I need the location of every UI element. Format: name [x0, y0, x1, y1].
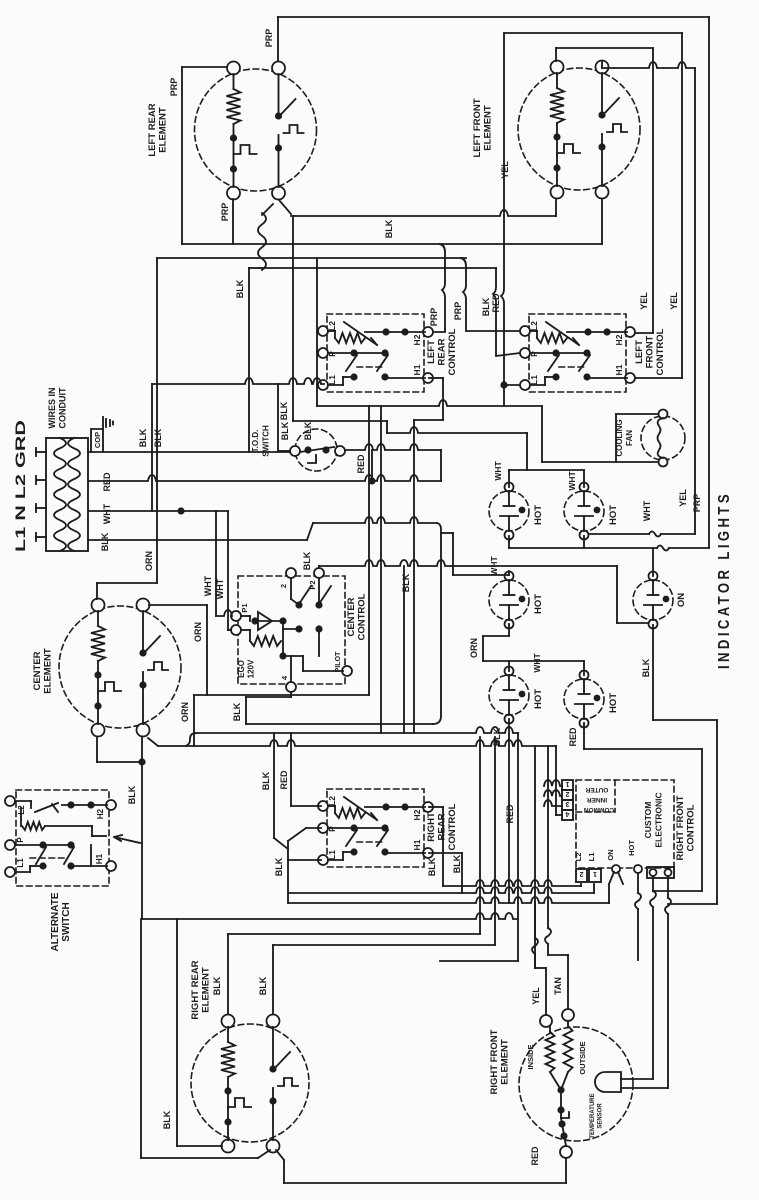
wire BLK y=433 to lamp feed x=527	[387, 427, 527, 433]
svg-text:BLK: BLK	[127, 785, 137, 804]
bus y=566 from P2 to ON lamp feed	[319, 560, 617, 566]
svg-text:L1: L1	[587, 853, 596, 862]
bus y=903 to RFC ON	[288, 897, 609, 903]
center control box	[231, 568, 352, 692]
wire YEL x=535 from bus746 down to RFE	[534, 746, 536, 968]
svg-text:WHT: WHT	[489, 556, 499, 576]
wire PRP: LRE T3 down to bus y=244	[232, 199, 234, 244]
left rear element body	[195, 62, 317, 200]
svg-text:2: 2	[565, 790, 569, 797]
svg-text:HOT: HOT	[533, 505, 544, 525]
svg-text:ELEMENT: ELEMENT	[43, 648, 54, 694]
right vertical x=695 down to lamp row feed y=533	[694, 68, 696, 534]
wire PRP bus y=244 to LFE T4 with taps	[182, 243, 602, 245]
flexible wire squiggle x=262	[258, 213, 266, 270]
svg-text:HOT: HOT	[608, 505, 619, 525]
wire BLK jog left to x=249	[249, 267, 262, 269]
lamp3 bottom to ORN jog	[508, 624, 510, 636]
wires in conduit box	[46, 438, 88, 551]
svg-text:WHT: WHT	[532, 653, 542, 673]
supply stub L1	[36, 536, 46, 538]
RFC sensor connector	[647, 867, 674, 878]
svg-text:OUTSIDE: OUTSIDE	[578, 1041, 587, 1074]
wire RRC H1 right down x=462	[429, 852, 462, 854]
svg-text:120V: 120V	[247, 659, 256, 678]
svg-text:L2: L2	[574, 853, 583, 862]
center control internals EGO igniter	[241, 612, 287, 660]
svg-text:3: 3	[565, 800, 569, 807]
svg-text:YEL: YEL	[531, 987, 541, 1005]
RFC pin stub wires	[544, 780, 562, 786]
svg-text:BLK: BLK	[261, 771, 271, 790]
bus y=68 with hops to x=695	[602, 62, 695, 68]
svg-text:YEL: YEL	[639, 292, 649, 310]
wire WHT bus y=511 from conduit	[88, 510, 228, 512]
bus y=406 from x=317 to fan feed	[317, 400, 542, 406]
wire ORN x=207 down to bus y=695	[206, 605, 208, 695]
wire from x=717 to sensor wire	[668, 903, 717, 905]
supply stub GRD	[36, 451, 46, 453]
wire x=495 from bus733 to bus945	[494, 737, 496, 945]
svg-text:BLK: BLK	[258, 976, 268, 995]
row3 tops bus y=661	[483, 660, 584, 662]
svg-text:L2: L2	[327, 796, 337, 806]
RFC HOT terminal	[634, 865, 642, 873]
wire: LFE T4 vertical from bus 244	[601, 197, 603, 244]
svg-text:RIGHT REAR: RIGHT REAR	[190, 960, 201, 1019]
ON lamp bottom BLK down	[652, 625, 654, 720]
svg-text:LEFT FRONT: LEFT FRONT	[472, 98, 483, 157]
wire BLK x=414 down to bus y=733	[413, 420, 415, 733]
alternate switch box	[5, 790, 116, 886]
svg-text:YEL: YEL	[500, 161, 510, 179]
svg-text:BLK: BLK	[384, 219, 394, 238]
svg-text:YEL: YEL	[669, 292, 679, 310]
wire BLK vertical x=249 down to TOD ground line	[248, 268, 250, 452]
curve join y=746 to y=733	[186, 733, 196, 746]
svg-text:H2: H2	[412, 334, 422, 345]
center element body	[59, 599, 181, 737]
wire COP ground: conduit to COP box and TOD switch	[88, 451, 294, 453]
svg-text:L2: L2	[327, 321, 337, 331]
right rear control box	[318, 789, 433, 867]
wire: CE T1 up then right to x=157	[96, 583, 98, 599]
fan feed from x=504	[541, 406, 543, 462]
branch at 533 to lamp3 feed	[441, 532, 453, 534]
bus y=724 to x=480	[246, 723, 433, 725]
junction at CE T4 line	[138, 758, 145, 765]
svg-text:CONTROL: CONTROL	[447, 328, 458, 375]
svg-text:BLK: BLK	[302, 551, 312, 570]
svg-text:HOT: HOT	[627, 840, 636, 856]
svg-text:RED: RED	[491, 293, 501, 313]
svg-text:H1: H1	[95, 853, 104, 864]
svg-text:RIGHT: RIGHT	[426, 812, 437, 842]
svg-text:BLK: BLK	[427, 857, 437, 876]
wire BLK y=268 right to x=496	[262, 267, 496, 269]
bus y=945 from RRE T2 to x=495	[273, 944, 495, 946]
svg-text:EGO: EGO	[237, 660, 246, 678]
bus y=919 from x=142	[142, 913, 518, 919]
ON lamp top feed from y=548	[652, 548, 654, 576]
wire BLK x=152 from bus y=384 down to WHT bus	[151, 384, 153, 511]
indicator lamp HOT row3 left	[489, 667, 529, 724]
svg-text:ELEMENT: ELEMENT	[483, 105, 494, 151]
indicator lamp HOT row1 left	[489, 483, 529, 540]
wire BLK vertical x=317 from ORN bus to y=433	[316, 258, 318, 406]
svg-text:PRP: PRP	[169, 78, 179, 97]
svg-text:L2: L2	[529, 321, 539, 331]
svg-text:L1: L1	[529, 375, 539, 385]
wire RRC L1 to x=288	[288, 859, 321, 861]
svg-text:FAN: FAN	[625, 430, 634, 446]
svg-text:BLK: BLK	[232, 702, 242, 721]
svg-text:WHT: WHT	[493, 461, 503, 481]
wire: LRC H1 right to x=443	[429, 377, 443, 379]
svg-text:ELECTRONIC: ELECTRONIC	[654, 792, 664, 847]
svg-text:RIGHT FRONT: RIGHT FRONT	[675, 795, 686, 860]
svg-text:BLK: BLK	[235, 279, 245, 298]
left front element body	[518, 61, 640, 199]
svg-text:H2: H2	[412, 809, 422, 820]
diagonal to RRE T4	[258, 1150, 270, 1158]
bus y=33 corner at x=504	[504, 32, 682, 34]
lamp6 bottom RED to right	[583, 723, 585, 749]
svg-text:H1: H1	[614, 364, 624, 375]
wire: CE T3 down and right to x=142	[96, 738, 98, 762]
svg-text:RED: RED	[568, 727, 578, 747]
wire RED bus y=481 from conduit	[88, 475, 441, 481]
wire RED vertical x=504 from bus y=33 down to fan feed	[501, 33, 504, 406]
wire BLK x=228 from bus934 to RRE T1	[227, 934, 229, 1014]
row1 lamp bottom stubs to y=548	[508, 536, 510, 548]
right vertical x=682 down to LFC H1	[681, 33, 683, 378]
svg-text:BLK: BLK	[274, 857, 284, 876]
wire ORN x=194 from bus 695 down to y=746	[193, 695, 195, 746]
wire: LFC L1 to x=504	[504, 384, 520, 386]
wire TAN x=548 from bus746 down	[547, 746, 549, 928]
svg-text:RED: RED	[279, 770, 289, 790]
svg-text:L1: L1	[327, 375, 337, 385]
wire: terminal 4 down-left jog	[290, 692, 292, 697]
bus y=886 to RFC L2	[443, 880, 581, 886]
svg-text:H1: H1	[412, 839, 422, 850]
svg-text:BLK: BLK	[280, 421, 290, 440]
svg-text:ELEMENT: ELEMENT	[201, 967, 212, 1013]
wire BLK x=278 from bus y=384 to TOD	[277, 384, 279, 451]
svg-text:L1 N L2 GRD: L1 N L2 GRD	[13, 420, 28, 552]
wire BLK: center element T4 down x=142	[141, 738, 143, 919]
svg-text:PILOT: PILOT	[335, 651, 342, 672]
svg-text:2: 2	[279, 584, 288, 588]
svg-text:1: 1	[593, 870, 597, 877]
svg-text:BLK: BLK	[401, 573, 411, 592]
svg-text:INNER: INNER	[587, 796, 608, 803]
supply stub L2	[36, 479, 46, 481]
RFC terminal strip 1-4	[562, 780, 573, 820]
svg-text:TAN: TAN	[553, 977, 563, 995]
wire x=404 from 566 to bus 733	[403, 566, 405, 733]
lamp5 bottom BLK down	[508, 719, 510, 903]
wire x=441 down to RED bus	[440, 450, 442, 481]
wire WHT x=216 from WHT bus to P1	[215, 511, 217, 616]
junction dot LFC L1 feed	[500, 381, 507, 388]
wire x=369 from bus406 to bus 695	[368, 406, 370, 695]
wire BLK: LRE T4 diagonal to bus y=216	[279, 200, 291, 214]
wire: vertical x=157 down to center element T1	[156, 258, 158, 583]
wire x=381 from bus406 to bus 733	[380, 406, 382, 733]
svg-text:WHT: WHT	[215, 578, 225, 599]
svg-text:PRP: PRP	[264, 29, 274, 48]
svg-text:4: 4	[565, 810, 569, 817]
wire RED x=291 from bus733 to RRC L2	[290, 733, 292, 806]
bottom wire y=1158	[141, 1157, 258, 1159]
left rear control box	[318, 314, 433, 392]
top bus y=17 to right side x=709	[278, 16, 709, 18]
svg-text:RED: RED	[102, 472, 112, 492]
bus y=746 long to x=556	[158, 740, 556, 746]
wire: curved tap at x=466 down to left front control L2	[461, 258, 520, 331]
svg-text:PRP: PRP	[429, 308, 439, 327]
wire left border x=138 down to y=1158	[140, 919, 142, 1158]
svg-text:PRP: PRP	[220, 203, 230, 222]
indicator lamp ON lamp	[633, 572, 673, 629]
wire BLK main bus y=523	[313, 517, 437, 523]
right front element	[519, 1009, 633, 1158]
svg-text:ALTERNATE: ALTERNATE	[50, 892, 61, 951]
svg-text:BLK: BLK	[279, 401, 289, 420]
indicator lamp HOT row2	[489, 572, 529, 629]
wire x=556 from bus746 to RFC pins	[555, 746, 557, 815]
alternate switch internals	[15, 801, 107, 872]
wire RED x=372 down to RED bus	[371, 450, 373, 481]
svg-text:BLK: BLK	[641, 658, 651, 677]
svg-text:L1: L1	[327, 850, 337, 860]
svg-text:PRP: PRP	[453, 302, 463, 321]
COP box	[91, 429, 103, 452]
svg-text:ORN: ORN	[193, 622, 203, 642]
right vertical x=709 down to lamps feed y=548	[708, 17, 710, 548]
wire PRP: LRE T2 up to top bus y=17	[277, 17, 279, 61]
svg-text:H1: H1	[412, 364, 422, 375]
wire BLK bus y=216 to LFE T3	[291, 210, 556, 216]
svg-text:RED: RED	[356, 454, 366, 474]
wire BLK: LRE T4 diagonal to flexible lead	[262, 204, 273, 215]
fan bracket wires	[616, 413, 658, 415]
svg-text:ON: ON	[676, 593, 687, 607]
svg-text:ORN: ORN	[469, 638, 479, 658]
svg-text:1: 1	[565, 780, 569, 787]
svg-text:2: 2	[579, 870, 583, 877]
bus y=48 to x=653	[556, 47, 653, 49]
wire x=480 from bus724 to bus934	[479, 737, 481, 934]
svg-text:RIGHT FRONT: RIGHT FRONT	[489, 1029, 500, 1094]
svg-text:BLK: BLK	[481, 297, 491, 316]
wire: TOD left to vertical x=278	[278, 450, 290, 452]
wire: TOD right along y=450 to x=441	[345, 444, 441, 450]
bottom bus y=1183 to RFE RED	[284, 1182, 566, 1184]
svg-text:SWITCH: SWITCH	[262, 425, 271, 457]
svg-text:P: P	[16, 837, 25, 843]
svg-text:BLK: BLK	[138, 428, 148, 447]
right vertical x=653 down to LFC H2	[652, 48, 654, 333]
wire YEL: LFE T2 to bus y=68	[601, 61, 603, 68]
wire BLK corner down x=441 to bus724	[433, 523, 441, 724]
svg-text:ORN: ORN	[180, 702, 190, 722]
svg-text:BLK: BLK	[212, 976, 222, 995]
svg-text:WHT: WHT	[102, 503, 112, 524]
svg-text:INSIDE: INSIDE	[526, 1044, 535, 1069]
wire BLK vertical x=293 to y=421	[292, 216, 294, 421]
svg-text:ELEMENT: ELEMENT	[500, 1039, 511, 1085]
jog wire y=420	[414, 419, 443, 421]
svg-text:ELEMENT: ELEMENT	[158, 107, 169, 153]
wire BLK x=273 from bus945 to RRE T2	[272, 945, 274, 1014]
svg-text:PRP: PRP	[692, 494, 702, 513]
svg-text:LEFT: LEFT	[634, 340, 645, 364]
svg-text:REAR: REAR	[437, 813, 448, 840]
wire TAN from x=548 to RFE T2	[548, 954, 568, 956]
indicator lamp HOT row3 right	[564, 671, 604, 728]
wire BLK y=421 step to y=433	[293, 420, 387, 422]
wire RED from RRE T4 to bottom bus	[276, 1150, 284, 1160]
row1 lamp top wires WHT	[508, 470, 510, 487]
svg-text:CONTROL: CONTROL	[655, 328, 666, 375]
wire RRC H2 right down x=443	[429, 806, 443, 808]
junction dot WHT/BLK cross	[177, 507, 184, 514]
center control internals switch contacts	[283, 578, 343, 682]
wire ORN-bus y=258 from x=157 to x=466	[157, 257, 466, 259]
svg-text:COP: COP	[93, 432, 102, 448]
right front control box	[576, 780, 674, 868]
svg-text:CUSTOM: CUSTOM	[643, 802, 653, 839]
junction dot RED bus	[368, 477, 375, 484]
svg-text:FRONT: FRONT	[645, 335, 656, 368]
bus y=384 feeding LRC L1	[152, 378, 324, 384]
svg-text:RED: RED	[505, 804, 515, 824]
svg-text:RED: RED	[530, 1146, 540, 1166]
wire from x=702 to sensor wire	[653, 890, 702, 892]
svg-text:TEMPERATURE: TEMPERATURE	[590, 1093, 596, 1138]
svg-text:YEL: YEL	[678, 489, 688, 507]
svg-text:BLK: BLK	[100, 532, 110, 551]
svg-text:WHT: WHT	[642, 500, 652, 521]
svg-text:HOT: HOT	[608, 693, 619, 713]
svg-text:ORN: ORN	[144, 551, 154, 571]
wire: CE T2 right to x=207	[149, 604, 207, 606]
wire x=518 RED from bus733 to y=961	[517, 733, 519, 961]
svg-text:ON: ON	[606, 849, 615, 860]
wire: CE T4 diagonal to bus y=746	[148, 738, 158, 746]
RFC bottom terminals L2 L1 boxes	[576, 869, 587, 882]
wire YEL: LFE T1 up to bus y=48	[555, 48, 557, 61]
svg-text:WHT: WHT	[203, 575, 213, 596]
RFC ON terminal	[612, 865, 620, 873]
svg-text:INDICATOR LIGHTS: INDICATOR LIGHTS	[716, 491, 733, 669]
svg-text:CONTROL: CONTROL	[357, 593, 368, 640]
bus y=695 to center control verticals	[194, 694, 369, 696]
svg-text:WHT: WHT	[567, 471, 577, 491]
svg-text:H2: H2	[96, 808, 105, 819]
svg-text:BLK: BLK	[452, 854, 462, 873]
sensor wires down from connector	[652, 876, 654, 891]
svg-text:COMMON: COMMON	[584, 806, 615, 813]
wire PRP: LRE T1 to bus y=244	[182, 66, 227, 68]
right rear element body	[191, 1015, 309, 1153]
wire BLK diagonal rise to y=523	[307, 523, 313, 540]
ON lamp bottom bracket from y=565	[616, 566, 618, 623]
svg-text:H2: H2	[614, 334, 624, 345]
svg-text:OUTER: OUTER	[585, 786, 608, 793]
svg-text:BLK: BLK	[492, 727, 502, 746]
ground symbol	[102, 417, 104, 429]
svg-text:CENTER: CENTER	[346, 597, 357, 636]
svg-text:REAR: REAR	[437, 338, 448, 365]
bus y=733 long to x=518	[196, 727, 518, 733]
wire YEL from x=535 to RFE T1	[535, 967, 546, 969]
supply stub N	[36, 507, 46, 509]
bus y=534 from lamp2 to x=695	[589, 533, 649, 535]
bus y=893 to RFC L1	[288, 887, 594, 893]
svg-text:CONTROL: CONTROL	[686, 804, 697, 851]
svg-text:P1: P1	[240, 603, 249, 612]
svg-text:HOT: HOT	[533, 689, 544, 709]
TOD switch body	[290, 429, 345, 471]
svg-text:SENSOR: SENSOR	[598, 1103, 604, 1129]
svg-text:CENTER: CENTER	[32, 651, 43, 690]
wire BLK bus y=540 from conduit	[88, 539, 307, 541]
stub LFE T3 to bus216	[555, 198, 557, 216]
svg-text:SWITCH: SWITCH	[61, 902, 72, 941]
bus y=548 from lamp1 to x=709	[509, 547, 657, 549]
svg-text:HOT: HOT	[533, 594, 544, 614]
svg-text:LEFT: LEFT	[426, 340, 437, 364]
cooling fan	[641, 410, 685, 467]
svg-text:L1: L1	[16, 858, 25, 868]
svg-text:BLK: BLK	[153, 428, 163, 447]
wire BLK x=274 from bus733 to RRC P diag	[273, 733, 275, 838]
wire RED from RFE T3 down to bus 1183	[565, 1158, 567, 1183]
wire: P2 up to y=566	[318, 566, 320, 568]
svg-text:LEFT REAR: LEFT REAR	[147, 103, 158, 156]
indicator lamp HOT row1 right	[564, 483, 604, 540]
feed x=527 from BLK y=433	[526, 433, 528, 470]
svg-text:WIRES IN: WIRES IN	[47, 387, 57, 428]
wire: LFC H2 to x=653	[633, 332, 653, 334]
alternate switch pointer arrow	[114, 835, 140, 843]
bus y=961 stub	[440, 960, 518, 962]
row2 lamp3 top from x=453	[453, 574, 509, 576]
wire x=177 from bus919 to RRE T3	[176, 919, 178, 1146]
left front control box	[520, 314, 635, 392]
wire: LFC H1 to x=682	[633, 377, 682, 379]
wire WHT x=228 from WHT bus to P1b	[227, 511, 229, 630]
svg-text:T.O.D.: T.O.D.	[251, 430, 260, 453]
wire x=443 down to jog y=420	[442, 378, 444, 420]
wire BLK x=496 down to left front control P	[493, 268, 520, 356]
svg-text:CONDUIT: CONDUIT	[58, 387, 68, 428]
bus y=934 from RRE T1 to x=480	[228, 933, 480, 935]
temperature sensor	[595, 1072, 668, 1092]
wire: curved tap at x=445 down to left rear control H2	[429, 244, 445, 332]
svg-text:BLK: BLK	[162, 1110, 172, 1129]
svg-text:CONTROL: CONTROL	[447, 803, 458, 850]
